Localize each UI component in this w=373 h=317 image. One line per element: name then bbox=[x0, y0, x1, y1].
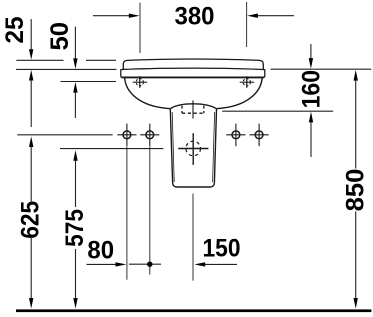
dim 380 left arrow bbox=[93, 15, 130, 17]
extension verticals below inner anchor holes bbox=[126, 147, 128, 280]
dim 25 arrows bbox=[30, 19, 32, 50]
fixing hole right (dashed cross) bbox=[240, 76, 255, 88]
dim 160 bottom reference line bbox=[222, 110, 333, 112]
bowl outline bbox=[125, 78, 263, 109]
wall anchor holes bbox=[117, 124, 268, 147]
svg-text:850: 850 bbox=[341, 169, 369, 212]
floor line bbox=[16, 309, 371, 312]
dim 160 top arrow bbox=[310, 44, 312, 59]
dim 380 extension lines bbox=[139, 3, 141, 54]
dim 150 arrow bbox=[194, 262, 205, 266]
left reference lines bbox=[16, 59, 63, 61]
pedestal inner shading line right bbox=[213, 112, 215, 182]
pedestal inner shading line left bbox=[172, 112, 174, 182]
dim 625 reference line bbox=[17, 134, 112, 136]
vertical center line bbox=[192, 100, 194, 118]
svg-text:625: 625 bbox=[16, 201, 44, 239]
dim 80/150 origin dot bbox=[129, 263, 161, 265]
fixing hole left (dashed cross) bbox=[133, 76, 148, 88]
basin rim band bbox=[121, 68, 265, 70]
drain symbol (dashed circle + crosshair) bbox=[186, 141, 201, 156]
pedestal (siphon cover) bbox=[170, 109, 216, 187]
svg-text:150: 150 bbox=[203, 235, 241, 263]
dim 50 arrows bbox=[74, 27, 76, 60]
dim 160/850 top reference line bbox=[271, 68, 372, 70]
dim 575 reference line bbox=[60, 148, 163, 150]
rim band bottom edge bbox=[122, 76, 264, 78]
svg-text:575: 575 bbox=[61, 209, 89, 247]
basin deck (upper rim) bbox=[123, 59, 263, 69]
dim 625 line + arrows bbox=[29, 136, 33, 147]
dim 575 line + arrows bbox=[73, 150, 77, 161]
svg-text:50: 50 bbox=[46, 22, 74, 51]
svg-text:380: 380 bbox=[175, 3, 215, 31]
svg-text:80: 80 bbox=[87, 236, 114, 264]
dashed drain inlet under bowl bbox=[181, 106, 183, 114]
svg-text:25: 25 bbox=[1, 16, 29, 43]
dim 380 right arrow bbox=[258, 15, 295, 17]
svg-text:160: 160 bbox=[298, 70, 326, 108]
dim 160 bottom arrow bbox=[309, 112, 313, 123]
dim 850 line + arrows bbox=[354, 70, 358, 81]
dim 80 arrow bbox=[87, 263, 117, 265]
